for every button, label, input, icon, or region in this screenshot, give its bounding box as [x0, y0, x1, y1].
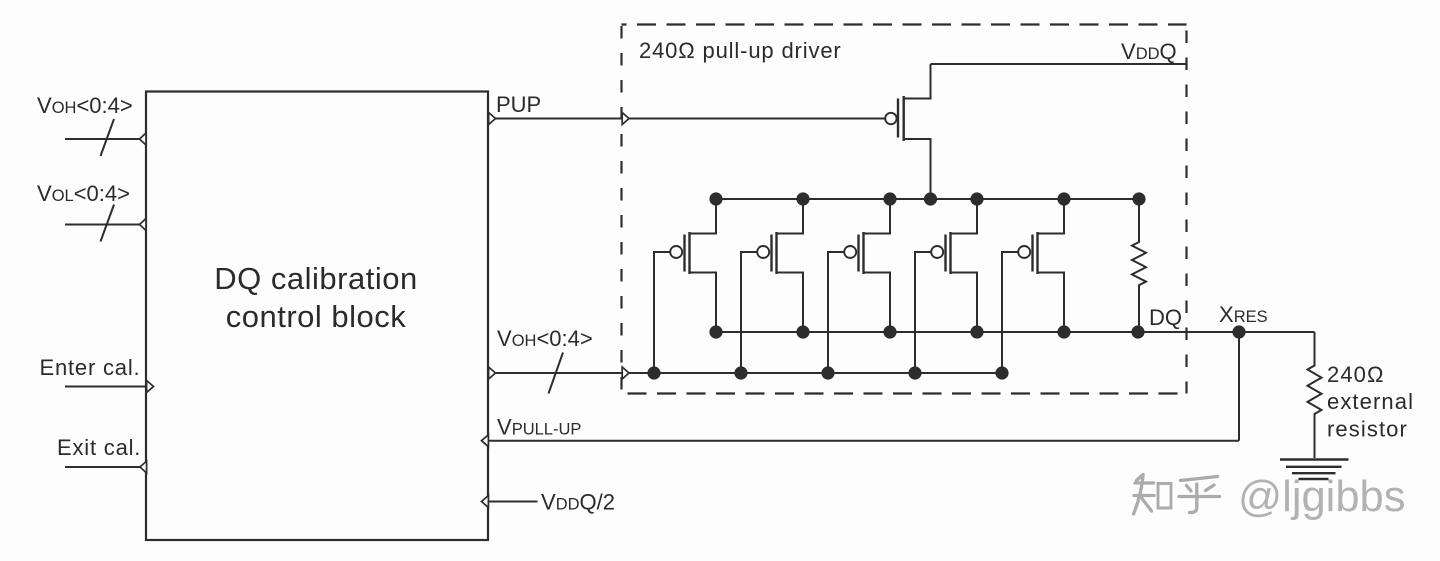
svg-text:Exit cal.: Exit cal.	[57, 435, 141, 460]
label: DQ calibration control block	[214, 261, 417, 334]
wire VDDQ/2 stub	[488, 501, 537, 503]
junction dot: Q6 source on DQ rail	[1057, 325, 1070, 338]
port arrow VDDQ/2 input	[482, 496, 489, 508]
junction dot: Q5 drain on top rail	[970, 192, 983, 205]
resistor R2 (240-ohm external)	[1308, 332, 1322, 458]
svg-text:resistor: resistor	[1327, 417, 1408, 442]
port arrow VOH input	[140, 133, 147, 145]
svg-text:external: external	[1327, 389, 1414, 414]
svg-text:control block: control block	[226, 299, 407, 334]
port arrow Enter cal.	[147, 381, 154, 393]
junction dot: Q2 drain on top rail	[709, 192, 722, 205]
transistor Q4 (binary-weighted pull-up leg PMOS)	[828, 199, 890, 373]
port arrow VOH output	[489, 367, 496, 379]
port arrow Exit cal.	[140, 461, 147, 473]
junction dot: Q2 source on DQ rail	[709, 325, 722, 338]
svg-text:PUP: PUP	[496, 92, 541, 117]
wire VOH<0:4> input	[65, 138, 140, 140]
wire VOL<0:4> input	[65, 224, 140, 226]
wire XRES to VPULL-UP	[1238, 332, 1240, 441]
bus slash on VOH output	[549, 353, 564, 394]
junction dot: Q6 drain on top rail	[1057, 192, 1070, 205]
junction dot: Q4 drain on top rail	[883, 192, 896, 205]
junction dot: Q4 source on DQ rail	[883, 325, 896, 338]
wire Exit cal.	[65, 466, 140, 468]
junction dot: node XRES	[1232, 325, 1245, 338]
svg-text:240Ω: 240Ω	[1327, 362, 1385, 387]
wire: common drain top rail	[716, 198, 1139, 200]
control block U1: DQ calibration control block	[146, 92, 488, 541]
transistor Q5 (binary-weighted pull-up leg PMOS)	[915, 199, 977, 373]
svg-text:DQ: DQ	[1149, 305, 1182, 330]
wire PUP gate line	[629, 118, 885, 120]
junction dot: Q6 gate on VOH bus	[995, 366, 1008, 379]
bus slash on VOH input	[101, 119, 115, 156]
port arrow VOL input	[140, 219, 147, 231]
wire: gate bus VOH<0:4>	[629, 372, 1002, 374]
junction dot: Q3 gate on VOH bus	[734, 366, 747, 379]
svg-text:DQ calibration: DQ calibration	[214, 261, 417, 296]
svg-text:240Ω pull-up driver: 240Ω pull-up driver	[639, 38, 842, 63]
junction dot: Q3 drain on top rail	[796, 192, 809, 205]
junction dot: Q5 gate on VOH bus	[908, 366, 921, 379]
wire: DQ output rail	[716, 331, 1315, 333]
wire Enter cal.	[65, 386, 146, 388]
wire VOH<0:4> to driver box	[496, 372, 623, 374]
transistor Q1 (240-ohm pull-up PMOS)	[885, 64, 930, 199]
watermark: zhihu @ljgibbs (decorative gray)	[1134, 475, 1220, 515]
svg-text:VOH<0:4>: VOH<0:4>	[37, 93, 133, 118]
junction dot: Q4 gate on VOH bus	[821, 366, 834, 379]
port arrow VPULL-UP input	[482, 435, 489, 447]
transistor Q3 (binary-weighted pull-up leg PMOS)	[741, 199, 803, 373]
port arrow PUP into driver box	[622, 113, 629, 125]
wire PUP to driver box	[496, 118, 623, 120]
wire VDDQ rail	[931, 63, 1187, 65]
junction dot: Q2 gate on VOH bus	[647, 366, 660, 379]
bus slash on VOL input	[101, 205, 115, 242]
svg-text:Enter cal.: Enter cal.	[40, 355, 141, 380]
ground symbol (earth)	[1280, 460, 1349, 480]
junction dot: Q5 source on DQ rail	[970, 325, 983, 338]
transistor Q2 (binary-weighted pull-up leg PMOS)	[654, 199, 716, 373]
svg-text:VOH<0:4>: VOH<0:4>	[497, 326, 593, 351]
junction dot: Q1 drain on top rail	[924, 192, 937, 205]
junction dot: Q3 source on DQ rail	[796, 325, 809, 338]
svg-text:@ljgibbs: @ljgibbs	[1238, 473, 1405, 521]
dashed box: 240-ohm pull-up driver	[622, 25, 1187, 394]
junction dot: R1 bottom on DQ rail	[1131, 325, 1144, 338]
wire VPULL-UP feedback	[488, 440, 1239, 442]
label: 240 ohm external resistor	[1327, 362, 1414, 442]
svg-text:VOL<0:4>: VOL<0:4>	[37, 181, 130, 206]
transistor Q6 (binary-weighted pull-up leg PMOS)	[1002, 199, 1064, 373]
resistor R1 (always-on 240-ohm leg)	[1132, 199, 1146, 332]
junction dot: R1 top on rail	[1132, 192, 1145, 205]
port arrow PUP output	[489, 113, 496, 125]
port arrow VOH bus into driver box	[622, 367, 629, 379]
